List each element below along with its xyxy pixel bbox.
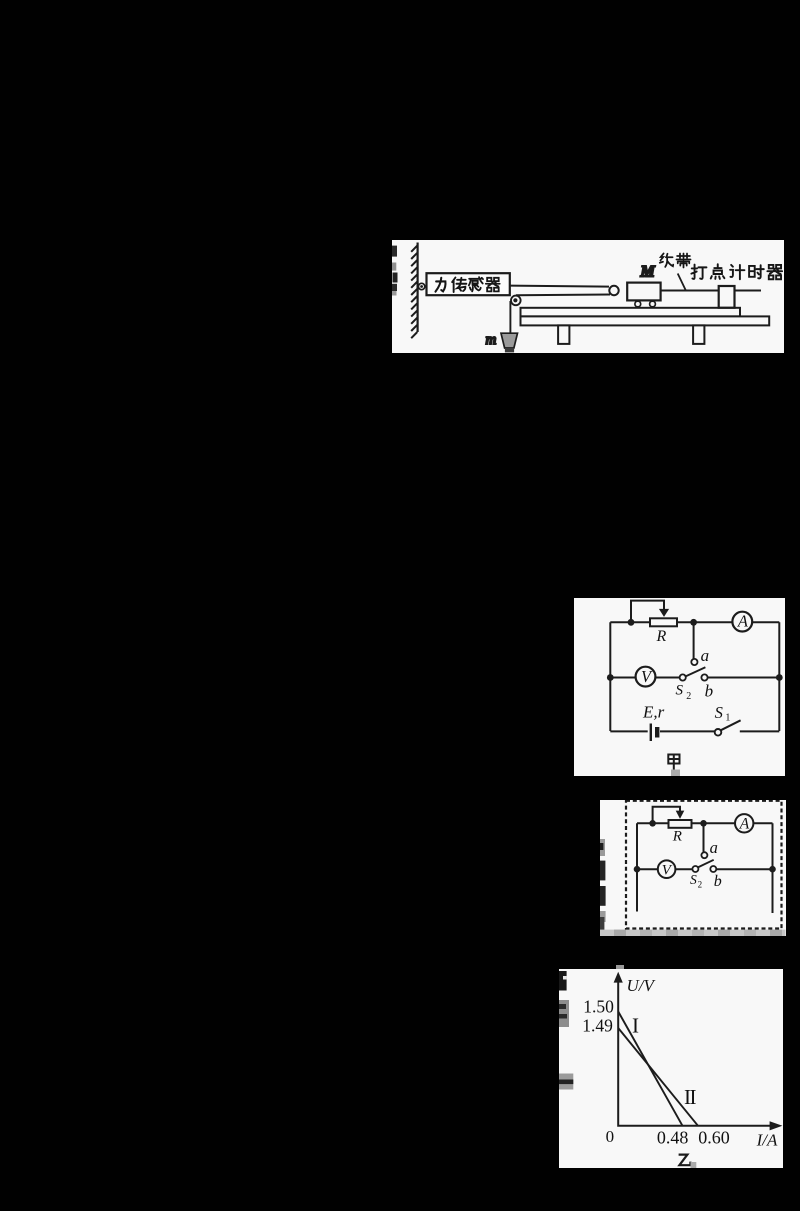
- svg-text:b: b: [714, 873, 722, 890]
- svg-text:1.50: 1.50: [583, 996, 614, 1016]
- svg-text:II: II: [684, 1085, 696, 1109]
- svg-text:2: 2: [698, 880, 703, 890]
- svg-text:S: S: [676, 683, 684, 699]
- svg-text:a: a: [710, 838, 718, 857]
- svg-text:m: m: [486, 332, 497, 348]
- svg-text:a: a: [701, 646, 710, 665]
- svg-text:0.60: 0.60: [698, 1127, 730, 1147]
- svg-text:R: R: [656, 628, 667, 645]
- svg-text:S: S: [690, 872, 697, 887]
- svg-text:I/A: I/A: [756, 1130, 778, 1149]
- svg-text:1: 1: [725, 712, 730, 723]
- svg-text:A: A: [739, 816, 750, 833]
- svg-text:A: A: [737, 612, 749, 631]
- svg-text:M: M: [640, 264, 656, 281]
- svg-text:0: 0: [606, 1127, 615, 1146]
- svg-text:0.48: 0.48: [657, 1127, 689, 1147]
- svg-text:S: S: [715, 703, 723, 722]
- svg-text:R: R: [672, 829, 682, 845]
- svg-text:2: 2: [686, 691, 691, 702]
- svg-text:U/V: U/V: [627, 976, 657, 995]
- svg-text:b: b: [705, 681, 714, 700]
- svg-text:E,r: E,r: [642, 703, 665, 722]
- svg-text:I: I: [632, 1013, 639, 1037]
- svg-text:1.49: 1.49: [582, 1016, 613, 1036]
